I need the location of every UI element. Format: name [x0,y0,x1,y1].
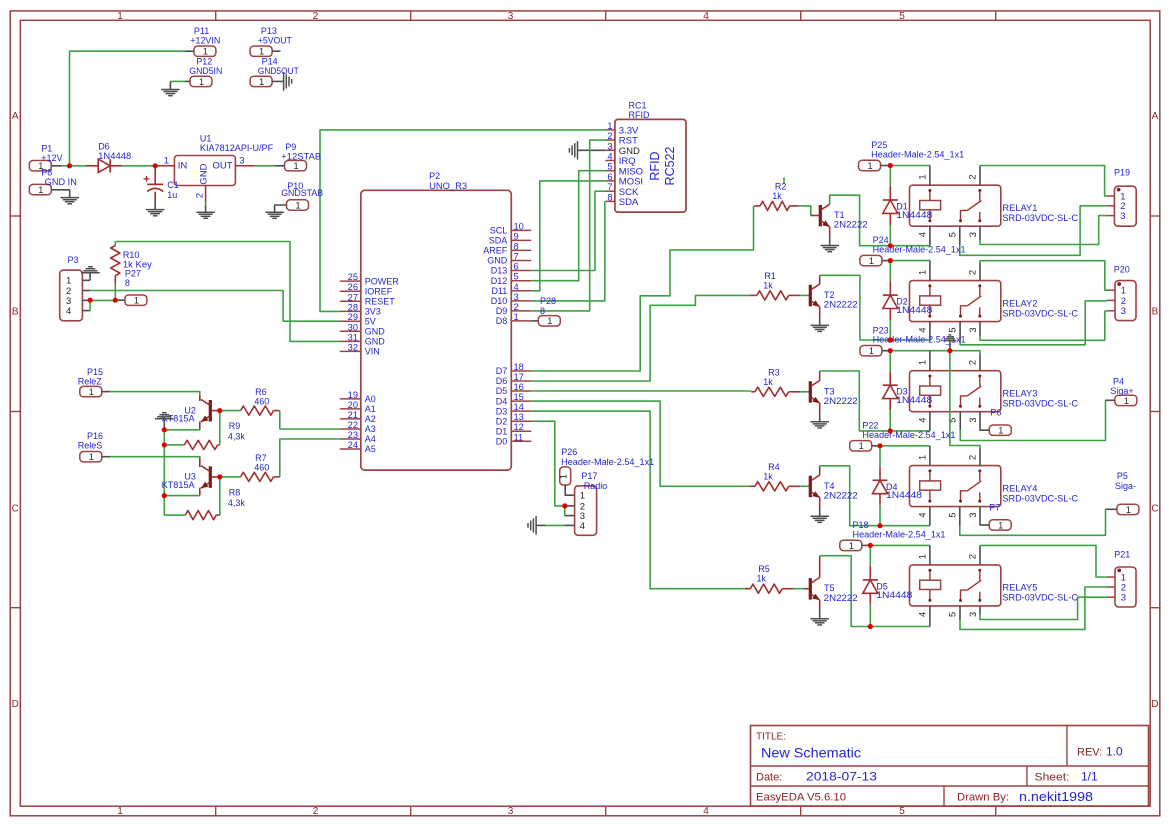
transistor T4 2N2222 [810,466,819,517]
relay1 pin5 to P19 pin2 [959,226,961,245]
svg-text:23: 23 [348,430,358,440]
connector P5 Siga- [1117,504,1139,514]
svg-text:P17: P17 [581,471,597,481]
svg-text:Radio: Radio [584,481,608,491]
svg-text:4: 4 [703,11,709,22]
resistor R8 4,3k [185,511,220,520]
svg-text:Siga+: Siga+ [1110,386,1133,396]
header P24 Header-Male-2.54_1x1 [860,255,882,265]
pin stub P13 [272,50,280,52]
svg-text:Siga-: Siga- [1115,481,1136,491]
svg-text:T4: T4 [824,481,835,491]
svg-text:UNO_R3: UNO_R3 [429,181,467,191]
svg-text:24: 24 [348,440,358,450]
wire P12 to ground [185,80,190,82]
svg-text:1: 1 [998,426,1003,436]
svg-text:1N4448: 1N4448 [896,210,932,220]
svg-text:4: 4 [918,232,928,237]
relay2 pin3 to P20 pin3 [979,322,981,336]
svg-text:P20: P20 [1114,265,1130,275]
svg-text:1: 1 [559,474,569,479]
svg-text:17: 17 [514,372,524,382]
svg-text:14: 14 [514,402,524,412]
RELAY4 pin numbers [918,455,979,518]
svg-text:1/1: 1/1 [1081,770,1098,784]
svg-text:1: 1 [998,520,1003,530]
RELAY3 pin numbers [918,360,979,423]
svg-text:5V: 5V [365,316,376,326]
connector P16 ReleS [80,452,102,462]
svg-text:SRD-03VDC-SL-C: SRD-03VDC-SL-C [1002,213,1078,224]
svg-text:A4: A4 [365,434,376,444]
svg-text:6: 6 [607,172,612,182]
wire D6 to C1 node [122,165,155,167]
svg-text:P7: P7 [989,503,1000,513]
svg-text:1: 1 [1124,396,1129,406]
svg-text:New Schematic: New Schematic [761,746,861,761]
svg-text:1N4448: 1N4448 [896,395,932,405]
relay2 pin4 lead [929,322,931,340]
svg-text:5: 5 [899,806,905,817]
wire top net relay5 [870,544,930,546]
connector P9 +12STAB [285,161,307,171]
svg-text:A3: A3 [365,424,376,434]
wire R9 to U2 base junction [219,411,221,445]
svg-text:A2: A2 [365,414,376,424]
svg-text:TITLE:: TITLE: [756,732,786,743]
connector P17 Radio [575,486,597,536]
wire R3 to T3 base [795,391,800,393]
RC522 pin 4 IRQ [605,152,635,168]
wire U1 OUT to P9 [255,165,275,167]
svg-text:C1: C1 [167,180,179,190]
svg-text:RC1: RC1 [629,101,647,111]
pin stub P9 [275,165,285,167]
svg-text:1k: 1k [763,280,773,290]
svg-text:P3: P3 [68,255,79,265]
svg-text:GND5OUT: GND5OUT [258,66,299,76]
svg-text:19: 19 [348,390,358,400]
svg-text:D: D [12,699,19,710]
svg-text:P21: P21 [1114,550,1130,560]
wire P1 to node [51,165,62,167]
svg-text:GND: GND [199,163,210,184]
svg-text:T3: T3 [824,386,835,396]
svg-text:U1: U1 [200,133,212,143]
svg-text:ReleZ: ReleZ [78,377,103,387]
RC522 pin 5 MISO [605,162,643,178]
svg-text:15: 15 [514,392,524,402]
pin stub P23 [882,350,890,352]
relay5 pin3 to P21 pin3 [979,606,981,614]
wire D6 to R1 net [531,295,750,381]
svg-text:+12VIN: +12VIN [190,35,220,45]
diode D5 1N4448 (flyback) [863,545,878,626]
pin stub P25 [881,165,891,167]
svg-text:1: 1 [134,296,139,306]
wire 3V3 to RC522 3.3V [320,130,605,312]
connector P26 Header-Male-2.54_1x1 [559,467,571,485]
svg-text:D12: D12 [491,276,508,286]
svg-text:4: 4 [66,306,71,317]
svg-text:IN: IN [178,160,188,171]
svg-text:1k: 1k [763,471,773,481]
connector P1 +12V [29,161,51,171]
svg-text:+5VOUT: +5VOUT [258,35,292,45]
svg-text:3: 3 [1121,593,1126,604]
UNO pin 17 D6 [496,372,532,386]
svg-text:D9: D9 [496,306,508,316]
svg-text:B: B [12,307,19,318]
pin stub P18 [862,544,871,546]
svg-text:1: 1 [164,155,169,165]
relay4 pin4 lead [929,507,931,526]
wire node to U1 IN [155,165,160,167]
svg-text:2: 2 [968,360,978,365]
svg-text:B: B [1152,307,1159,318]
svg-text:4: 4 [580,521,585,532]
wire rail to relay4 pin2 [950,351,980,449]
svg-text:EasyEDA V5.6.10: EasyEDA V5.6.10 [756,792,846,804]
svg-text:R7: R7 [255,453,267,463]
UNO pin 11 D0 [496,432,532,446]
resistor R10 1k Key [111,242,120,301]
connector P10 GNDSTAB [287,200,309,210]
RC522 pin 3 GND [605,141,640,157]
module RC1 RFID RC522 [615,101,686,213]
wire P3 pin2 to UNO 5V [90,291,340,322]
resistor R6 460 [220,406,280,415]
svg-text:1: 1 [859,441,864,451]
svg-text:IOREF: IOREF [365,286,393,296]
svg-text:4: 4 [918,513,928,518]
svg-text:4: 4 [514,282,519,292]
svg-text:2: 2 [968,554,978,559]
svg-text:1: 1 [918,455,928,460]
connector P13 +5VOUT [250,46,272,56]
svg-text:R5: R5 [758,564,770,574]
pin stub P24 [882,260,890,262]
relay2 pin2 to P20 pin1 [979,263,981,281]
connector P4 Siga+ [1115,395,1137,405]
svg-text:29: 29 [348,312,358,322]
svg-text:25: 25 [348,272,358,282]
svg-text:P26: P26 [561,447,577,457]
transistor T3 2N2222 [810,371,819,422]
wire R10 top to UNO GND pin31 [115,242,339,342]
UNO pin 9 SDA [489,231,532,245]
svg-text:3: 3 [239,155,244,165]
connector P12 GND5IN [190,76,212,86]
relay1 pin2 to P19 pin1 [979,166,981,186]
resistor R1 1k [750,291,795,300]
svg-text:R2: R2 [775,181,787,191]
RELAY1 pin numbers [918,174,979,237]
svg-text:2: 2 [313,11,319,22]
svg-text:4: 4 [918,328,928,333]
svg-text:4,3k: 4,3k [228,431,246,441]
header P25 Header-Male-2.54_1x1 [859,160,881,170]
svg-text:3: 3 [968,513,978,518]
svg-text:1: 1 [867,161,872,171]
svg-text:7: 7 [607,182,612,192]
svg-text:R9: R9 [229,421,241,431]
svg-text:1.0: 1.0 [1106,745,1123,759]
svg-text:1: 1 [849,541,854,551]
relay2 pin1 lead [929,261,931,281]
svg-text:12: 12 [514,422,524,432]
wire T4 collector loop to net [820,466,880,526]
svg-text:2018-07-13: 2018-07-13 [806,770,877,784]
svg-text:2: 2 [607,131,612,141]
svg-text:2N2222: 2N2222 [824,396,858,406]
svg-text:7: 7 [514,252,519,262]
svg-text:Header-Male-2.54_1x1: Header-Male-2.54_1x1 [561,457,654,467]
svg-text:3: 3 [508,11,514,22]
wire D5 to R3 [531,390,751,392]
svg-text:2: 2 [968,174,978,179]
svg-text:SRD-03VDC-SL-C: SRD-03VDC-SL-C [1002,493,1078,504]
svg-text:1: 1 [918,360,928,365]
UNO pin 23 A4 [340,430,376,444]
UNO pin 24 A5 [340,440,376,454]
svg-text:D5: D5 [496,386,508,396]
svg-text:1k: 1k [757,574,767,584]
svg-text:A5: A5 [365,444,376,454]
svg-text:Header-Male-2.54_1x1: Header-Male-2.54_1x1 [873,245,966,255]
svg-text:Header-Male-2.54_1x1: Header-Male-2.54_1x1 [862,430,955,440]
relay5 pin1 lead [929,545,931,565]
resistor R5 1k [745,584,789,593]
UNO pin 31 GND [340,332,386,346]
wire R1 to T2 base [795,294,800,296]
wire P3 pin3 net [90,299,115,301]
svg-text:1: 1 [259,47,264,57]
svg-text:2: 2 [968,455,978,460]
capacitor C1 1u [144,166,164,202]
transistor T1 2N2222 [820,195,829,245]
wire R4 to T4 base [795,485,800,487]
RC522 pin 6 MOSI [605,172,643,188]
pin stub P27 [115,299,125,301]
wire D3 to R5 net [531,411,750,589]
svg-text:2: 2 [1121,296,1126,307]
UNO pin 6 D13 [491,262,532,276]
connector P20 [1107,281,1136,321]
svg-text:3: 3 [508,806,514,817]
UNO pin 3 D10 [491,292,532,306]
svg-text:3: 3 [1121,306,1126,317]
svg-text:Header-Male-2.54_1x1: Header-Male-2.54_1x1 [871,150,964,160]
wire D11 to RC522 MOSI [531,181,605,291]
wire node to D6 [70,165,86,167]
wire top net relay4 [880,445,930,447]
svg-text:3: 3 [607,141,612,151]
svg-text:1: 1 [1126,505,1131,515]
svg-text:6: 6 [514,262,519,272]
header P22 Header-Male-2.54_1x1 [850,441,872,451]
svg-text:T5: T5 [824,583,835,593]
svg-text:460: 460 [254,397,269,407]
connector P28 8 [538,316,560,326]
svg-text:R3: R3 [768,367,780,377]
relay4 pin3 to P7 [980,507,989,525]
svg-text:4: 4 [703,806,709,817]
svg-text:T2: T2 [824,290,835,300]
svg-text:3: 3 [968,612,978,617]
svg-text:n.nekit1998: n.nekit1998 [1019,790,1093,804]
svg-text:3: 3 [968,232,978,237]
svg-text:4: 4 [607,152,612,162]
wire D4 to R4 net [531,401,750,486]
wire top net relay3 [890,351,980,355]
relay1 pin4 lead [929,226,931,246]
relay3 pin3 to P6 [980,412,989,431]
transistor U2 KT815A [200,395,220,429]
svg-text:13: 13 [514,412,524,422]
svg-text:9: 9 [514,231,519,241]
pin 3 of U1 [235,165,254,167]
wire T2 collector loop to net [820,275,891,340]
relay2 pin5 to P20 pin2 [959,322,961,341]
relay RELAY4 SRD-03VDC-SL-C [910,466,1001,507]
svg-text:4: 4 [918,418,928,423]
svg-text:1: 1 [918,554,928,559]
svg-text:2: 2 [968,270,978,275]
relay3 pin1 lead [929,351,931,371]
svg-text:ReleS: ReleS [78,440,103,450]
svg-text:SRD-03VDC-SL-C: SRD-03VDC-SL-C [1002,593,1078,604]
resistor R4 1k [750,482,795,491]
svg-text:SCL: SCL [490,226,508,236]
relay5 pin5 to P21 pin2 [959,606,961,620]
svg-text:1: 1 [869,256,874,266]
diode D2 1N4448 (flyback) [883,261,898,340]
svg-text:+12STAB: +12STAB [281,151,321,161]
svg-text:P27: P27 [125,268,141,278]
svg-text:1: 1 [547,316,552,326]
svg-text:Date:: Date: [756,772,782,784]
resistor R9 4,3k [164,440,220,449]
svg-text:KIA7812API-U/PF: KIA7812API-U/PF [200,143,274,153]
svg-text:2N2222: 2N2222 [824,300,858,310]
transistor T2 2N2222 [810,275,819,325]
wire bottom net relay1 [890,245,930,247]
svg-text:8: 8 [514,241,519,251]
wire D9 to RC522 RST [531,140,605,311]
wire P26 to P17 pin1 [565,485,574,495]
svg-text:P15: P15 [87,367,103,377]
svg-text:GND5IN: GND5IN [189,66,222,76]
svg-text:D13: D13 [491,266,508,276]
svg-text:1: 1 [89,387,94,397]
svg-text:D7: D7 [496,366,508,376]
wire P8 to ground [51,190,69,198]
svg-text:OUT: OUT [213,160,233,171]
svg-text:1: 1 [295,200,300,210]
wire R6 to UNO A3 [280,411,340,429]
svg-text:18: 18 [514,362,524,372]
svg-text:RFID: RFID [629,110,650,120]
svg-text:R8: R8 [229,488,241,498]
RC522 pin 8 SDA [605,192,639,208]
svg-text:D3: D3 [496,406,508,416]
svg-text:P28: P28 [540,296,556,306]
svg-text:460: 460 [254,463,269,473]
wire D2 to P17 net [531,421,565,506]
header P18 Header-Male-2.54_1x1 [840,540,862,550]
wire T5 collector loop to net [820,556,871,627]
svg-text:1: 1 [918,270,928,275]
svg-text:5: 5 [947,513,957,518]
RELAY2 pin numbers [918,270,979,333]
svg-text:GND: GND [365,327,386,337]
connector P6 [989,425,1011,435]
svg-text:P5: P5 [1117,471,1128,481]
svg-text:A0: A0 [365,394,376,404]
relay5 pin2 to P21 pin1 [979,545,981,565]
wire P17 pin3 [564,506,566,516]
svg-text:A1: A1 [365,404,376,414]
connector P7 [989,520,1011,530]
UNO pin 22 A3 [340,420,376,434]
wire P15 to U2 collector [102,391,110,393]
svg-text:P16: P16 [87,431,103,441]
svg-text:3: 3 [968,328,978,333]
svg-text:3V3: 3V3 [365,307,381,317]
UNO pin 29 5V [340,312,376,326]
UNO pin 28 3V3 [340,302,381,316]
wire bottom net relay4 [880,525,930,527]
svg-text:C: C [1151,504,1158,515]
RC522 pin 7 SCK [605,182,639,198]
svg-text:D8: D8 [496,316,508,326]
svg-text:1: 1 [869,346,874,356]
svg-text:D11: D11 [491,286,507,296]
relay1 pin3 to P19 pin3 [979,226,981,240]
UNO pin 19 A0 [340,390,376,404]
svg-text:T1: T1 [834,210,845,220]
svg-text:D0: D0 [496,437,508,447]
UNO pin 20 A1 [340,400,376,414]
header P23 Header-Male-2.54_1x1 [860,346,882,356]
pin stub P28 [531,320,538,322]
wire R7 to UNO A4 [280,439,340,477]
UNO pin 21 A2 [340,410,376,424]
svg-text:16: 16 [514,382,524,392]
svg-text:11: 11 [514,432,524,442]
wire U3 emitter to rail [164,495,200,497]
UNO pin 15 D4 [496,392,532,406]
connector P8 GND IN [29,184,51,194]
connector P21 [1107,567,1136,607]
svg-text:3: 3 [1120,211,1125,222]
svg-text:30: 30 [348,322,358,332]
svg-text:GND: GND [487,256,508,266]
svg-text:RC522: RC522 [663,147,677,186]
svg-text:D2: D2 [496,416,508,426]
svg-text:R10: R10 [123,250,140,260]
svg-text:AREF: AREF [483,246,508,256]
UNO pin 4 D11 [491,282,531,296]
svg-text:2: 2 [514,302,519,312]
wire P10 to ground [275,205,287,212]
wire T1 collector loop to net [830,195,891,246]
svg-text:1: 1 [293,161,298,171]
UNO pin 16 D5 [496,382,532,396]
ground at C1 [154,202,156,210]
UNO pin 8 AREF [483,241,531,255]
